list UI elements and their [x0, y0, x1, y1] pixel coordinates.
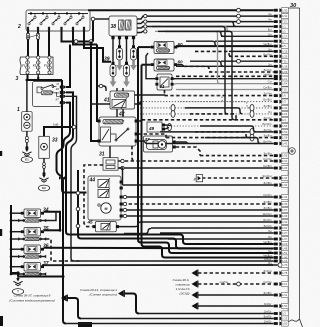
svg-text:42: 42	[118, 112, 125, 118]
fuse under box x=28	[27, 31, 30, 56]
svg-text:F3: F3	[44, 64, 48, 68]
svg-text:Зл: Зл	[268, 235, 272, 239]
svg-text:T13: T13	[282, 20, 287, 24]
wire row y=66.3 to connector pin 1/18	[176, 62, 288, 69]
wire 33 bottom	[43, 158, 45, 172]
svg-text:Зл/Gr: Зл/Gr	[264, 310, 272, 314]
wire cascade 101-107	[180, 102, 250, 108]
wire 41 left	[91, 103, 110, 105]
page link text speed	[80, 288, 117, 297]
wire cascade 95-101	[170, 96, 225, 102]
wire row y=119.8 to connector pin 1/4	[142, 116, 288, 123]
svg-text:Чн/Кр: Чн/Кр	[264, 72, 272, 76]
earth point E1	[21, 157, 32, 163]
wire 38 right pin 3	[137, 25, 147, 28]
wire bus box3 down	[62, 80, 87, 193]
svg-text:Зл/Gr: Зл/Gr	[264, 302, 272, 306]
svg-text:1/76: 1/76	[282, 263, 288, 267]
wire vertical x97 down	[97, 45, 99, 122]
wire 41 out2	[135, 102, 141, 104]
svg-text:1/56: 1/56	[282, 154, 288, 158]
label 33	[52, 138, 58, 144]
svg-text:Си/Чн: Си/Чн	[263, 280, 272, 284]
svg-text:Е1: Е1	[25, 158, 29, 162]
svg-text:1/4: 1/4	[282, 118, 286, 122]
wire row y=131.9 to connector pin 1/52	[160, 128, 288, 135]
svg-text:1/30: 1/30	[282, 8, 288, 12]
svg-text:61: 61	[160, 84, 166, 89]
wire row y=78.7 to connector pin 1/21	[176, 76, 288, 81]
wire row y=253.0 to connector pin 1/51	[172, 249, 288, 256]
svg-text:Бл/Чн: Бл/Чн	[263, 52, 272, 56]
svg-text:T15: T15	[282, 88, 287, 92]
svg-text:1/7: 1/7	[282, 39, 286, 43]
svg-text:Жл/Зл: Жл/Зл	[263, 212, 272, 216]
junction circle a	[74, 40, 78, 44]
svg-text:Бл/Чн: Бл/Чн	[263, 140, 272, 144]
wire bus stub 36	[10, 248, 24, 258]
svg-text:Чн: Чн	[268, 249, 272, 253]
connector strip screw	[289, 148, 296, 155]
wire row y=168.0 to connector pin 1/26	[119, 164, 288, 171]
wire 61 right2	[174, 83, 176, 86]
wire row y=244.0 to connector pin 1/23	[186, 240, 288, 247]
injector group 39	[110, 45, 137, 87]
label 39	[104, 57, 110, 63]
wire 38 bottom pin 4	[132, 36, 135, 45]
wire row y=51.4 to connector pin 1/15	[229, 47, 288, 54]
wire 42 out3	[138, 141, 146, 144]
svg-text:Зл/Чн: Зл/Чн	[263, 128, 271, 132]
svg-text:М: М	[105, 207, 108, 211]
svg-text:1/24: 1/24	[282, 112, 288, 116]
wire row y=257.5 to connector pin 1/46	[165, 254, 288, 261]
wire row y=155.6 to connector pin 1/56	[200, 152, 288, 159]
svg-text:1/45: 1/45	[282, 214, 288, 218]
svg-text:1/32: 1/32	[282, 183, 288, 187]
switch box 61	[155, 74, 173, 90]
wire vertical x93	[92, 21, 94, 42]
wire x78 circles run	[76, 170, 179, 249]
svg-text:3: 3	[16, 76, 19, 82]
wire 33 top	[44, 123, 77, 137]
page link arrow kondicioner	[61, 295, 67, 302]
wire S to row 228	[124, 229, 151, 234]
svg-text:87: 87	[56, 97, 60, 101]
wire row y=56.3 to connector pin 1/25	[229, 52, 288, 59]
wire fuse3 down	[48, 31, 50, 56]
wire 34 out	[44, 212, 60, 231]
page link text ESUD	[173, 278, 190, 296]
svg-text:Зл: Зл	[268, 32, 272, 36]
wire row y=31.4 to connector pin 1/2	[155, 27, 288, 34]
wire injector down b	[122, 88, 124, 117]
socket symbol 8	[194, 175, 203, 182]
wire 47 out2	[176, 147, 200, 156]
svg-text:Зл/Бл: Зл/Бл	[263, 206, 271, 210]
wire 61 left	[146, 53, 155, 79]
wire 45 right to row 222	[119, 222, 141, 227]
svg-text:Зл/Вл: Зл/Вл	[263, 152, 271, 156]
svg-text:1/51: 1/51	[282, 251, 288, 255]
fusible link box 3	[20, 56, 53, 75]
svg-text:Схема 36 А,: Схема 36 А,	[173, 278, 190, 282]
wire relay bus left	[10, 205, 12, 273]
wire row y=233.0 to connector pin 1/27	[160, 229, 288, 236]
wire cascade 113-119	[190, 114, 239, 120]
relay box 37	[18, 263, 46, 276]
wire row y=89.5 to connector pin T15	[176, 86, 288, 93]
svg-text:Бл/Gr: Бл/Gr	[264, 315, 272, 319]
ground 33	[39, 172, 48, 182]
svg-text:60: 60	[178, 60, 184, 65]
svg-text:1/23: 1/23	[282, 242, 288, 246]
wire row y=61.2 to connector pin T15	[221, 59, 288, 64]
label 1	[17, 107, 20, 113]
svg-text:1/52: 1/52	[282, 130, 288, 134]
svg-text:30: 30	[290, 3, 297, 9]
svg-text:1/5: 1/5	[282, 44, 286, 48]
svg-text:F2: F2	[33, 64, 37, 68]
wire 35 out	[44, 229, 61, 232]
wire cascade 126-131	[200, 126, 256, 132]
svg-text:1/18: 1/18	[282, 64, 288, 68]
junction to box41	[97, 84, 106, 91]
svg-text:39: 39	[104, 57, 110, 63]
wire 38 bottom pin 1	[111, 36, 114, 62]
wire cascade 31-119	[158, 31, 235, 119]
svg-text:Зл/Чн: Зл/Чн	[263, 116, 271, 120]
svg-text:F1: F1	[22, 64, 26, 68]
page link arrow ESUD 3	[192, 292, 198, 299]
wire battery up	[26, 79, 29, 112]
fan motor box 60 (2)	[151, 59, 177, 71]
svg-text:Си/Зл: Си/Зл	[263, 193, 271, 197]
svg-text:38: 38	[111, 24, 117, 30]
svg-text:(Сигнал скорости): (Сигнал скорости)	[89, 293, 117, 297]
svg-text:1/37: 1/37	[282, 237, 288, 241]
wire row y=185.0 to connector pin 1/32	[123, 181, 289, 188]
wire 42 bottom dashed to row161	[132, 146, 135, 161]
wire 38 right pin 4	[137, 30, 147, 33]
wire row y=137.6 to connector pin 1/28	[166, 134, 288, 141]
wire 31 right1	[118, 159, 124, 162]
wire cascade 21-26	[160, 22, 236, 27]
svg-text:Зл/Чн: Зл/Чн	[263, 92, 271, 96]
relay box 34	[18, 209, 46, 222]
wire row y=228.0 to connector pin 1/60	[151, 224, 288, 231]
wire row y=284.0 to connector pin 1/21	[198, 280, 288, 287]
page link text kondicioner	[9, 294, 54, 303]
wire row y=295.0 to connector pin 1/31	[198, 291, 288, 298]
wire 60a right	[177, 45, 179, 48]
page link arrow ESUD 2	[192, 281, 198, 288]
wire row y=143.5 to connector pin 1/43	[146, 140, 288, 147]
wire row y=318.5 to connector pin 1/13	[81, 315, 288, 322]
relay box 36	[18, 245, 46, 258]
battery box 1	[22, 112, 32, 132]
wire 38 left pin	[91, 17, 109, 21]
wire row y=261.0 to connector pin 1/16	[74, 257, 288, 264]
relay box 35	[18, 228, 46, 241]
svg-text:страница: страница	[175, 283, 189, 287]
svg-text:1/53: 1/53	[282, 124, 288, 128]
svg-text:47: 47	[144, 137, 151, 142]
wire sw pin3 down	[66, 96, 77, 261]
svg-text:45: 45	[87, 220, 94, 225]
wire row y=21.6 to connector pin T13	[145, 18, 288, 25]
wire row y=83.6 to connector pin 1/54	[176, 80, 288, 87]
wire cascade grey 31-83	[170, 31, 220, 83]
connector strip label 30	[290, 3, 297, 9]
label 60 (1)	[178, 42, 184, 47]
svg-text:T15: T15	[282, 59, 287, 63]
wire 60a left	[138, 46, 151, 48]
svg-text:Бл/Кр: Бл/Кр	[264, 224, 272, 228]
svg-text:Зл/Вл: Зл/Вл	[263, 104, 271, 108]
svg-text:Бл: Бл	[268, 27, 272, 31]
svg-text:Чн: Чн	[268, 229, 272, 233]
wire 61 bottom	[164, 90, 166, 96]
page link arrow ESUD 4	[192, 303, 198, 310]
wire cascade 51-56	[195, 51, 232, 56]
wire row y=222.0 to connector pin 1/42	[141, 218, 288, 225]
wire row y=178.0 to connector pin 1/43	[202, 174, 288, 181]
svg-text:1/26: 1/26	[282, 166, 288, 170]
wire row y=16.1 to connector pin 1/31	[145, 12, 288, 19]
earth point E2	[38, 185, 49, 191]
wire cascade 66-72	[184, 66, 212, 72]
svg-text:Зл: Зл	[268, 47, 272, 51]
wire bus stub 34	[10, 212, 24, 222]
label 45	[87, 220, 94, 225]
wire row y=113.9 to connector pin 1/24	[140, 110, 288, 117]
svg-text:Зл/Бл: Зл/Бл	[263, 134, 271, 138]
fuse 33	[43, 163, 46, 169]
wire sw pin2 down	[66, 92, 186, 244]
wire sw pin1 up	[66, 45, 70, 88]
svg-text:1/31: 1/31	[282, 293, 288, 297]
wire vertical x91 down	[91, 42, 99, 142]
fuse-relay box 2	[26, 10, 90, 31]
wire battery down	[26, 131, 28, 146]
wire kondicioner	[68, 298, 81, 319]
label 60 (2)	[178, 60, 184, 65]
svg-text:1/3: 1/3	[282, 312, 286, 316]
wire row y=210.0 to connector pin 1/57	[123, 206, 288, 213]
svg-text:1/3: 1/3	[282, 100, 286, 104]
svg-text:(Система кондиционирования): (Система кондиционирования)	[9, 299, 54, 303]
svg-text:1,N,Aa,Cb: 1,N,Aa,Cb	[176, 287, 190, 291]
wire row y=248.5 to connector pin 1/48	[179, 246, 288, 251]
svg-text:Е2: Е2	[42, 186, 46, 190]
wire row y=323.5 to connector pin 1/50	[66, 320, 288, 327]
wire 34 conn right	[46, 212, 56, 221]
svg-text:Бл/Жл: Бл/Жл	[262, 122, 271, 126]
svg-text:1/2: 1/2	[282, 30, 286, 34]
svg-text:1/13: 1/13	[282, 317, 288, 321]
label 37	[43, 261, 49, 267]
svg-text:1/42: 1/42	[282, 220, 288, 224]
svg-text:Чн/Бл: Чн/Бл	[263, 240, 271, 244]
fan motor box 60 (1)	[151, 42, 177, 54]
svg-text:1/43: 1/43	[282, 142, 288, 146]
wire vertical x141 run	[142, 65, 166, 258]
wire row y=126.0 to connector pin 1/53	[171, 122, 288, 129]
wire 42 to 31	[109, 146, 111, 158]
svg-text:1/36: 1/36	[282, 202, 288, 206]
svg-text:КиВ: КиВ	[53, 123, 58, 127]
pin on bus x62	[59, 176, 65, 180]
svg-text:44: 44	[89, 178, 96, 184]
svg-text:Бл/Вл: Бл/Вл	[263, 98, 272, 102]
fuse under box x=38	[27, 31, 40, 56]
ignition relay box	[33, 82, 67, 107]
wire vertical x138 run	[138, 47, 172, 253]
svg-text:1/1: 1/1	[282, 25, 286, 29]
wire 42 out2	[138, 134, 166, 138]
wire 38 bottom pin 3	[125, 36, 128, 62]
svg-text:1/21: 1/21	[282, 282, 288, 286]
svg-text:Зл/Gr: Зл/Gr	[264, 320, 272, 324]
svg-text:1/78: 1/78	[282, 271, 288, 275]
svg-text:Зл: Зл	[268, 62, 272, 66]
battery fuse symbol	[25, 137, 28, 143]
label 34	[43, 208, 49, 214]
wire fuse6 elbow	[84, 31, 111, 62]
svg-text:86: 86	[56, 91, 60, 95]
svg-text:41: 41	[103, 98, 110, 104]
wire row y=216.0 to connector pin 1/45	[123, 212, 288, 219]
svg-text:Зл/Вл: Зл/Вл	[263, 291, 271, 295]
ground relay bus	[11, 271, 23, 285]
svg-text:1/57: 1/57	[282, 208, 288, 212]
svg-text:1: 1	[17, 107, 20, 113]
connector strip 30 outline	[282, 8, 303, 327]
svg-text:Схема 28-14, страница 1: Схема 28-14, страница 1	[80, 288, 117, 292]
svg-text:1/31: 1/31	[282, 14, 288, 18]
wire cascade 41-46	[186, 41, 218, 46]
label 3	[16, 76, 19, 82]
wire 61 right1	[174, 78, 176, 80]
wire row y=101.6 to connector pin 1/3	[140, 98, 288, 105]
wire 31 left	[84, 165, 103, 227]
wire 38 right pin 2	[137, 20, 147, 24]
svg-text:Жл/Си: Жл/Си	[262, 174, 272, 178]
label 31	[99, 152, 105, 158]
svg-text:Зл/Вл: Зл/Вл	[263, 181, 271, 185]
label 47	[144, 137, 151, 142]
relay box 42	[97, 117, 137, 146]
wire 37 out	[44, 264, 273, 266]
ground battery	[22, 146, 31, 156]
page link arrow ESUD 1	[192, 270, 198, 277]
wire row y=107.9 to connector pin 1/40	[140, 104, 288, 111]
svg-text:1/6: 1/6	[282, 94, 286, 98]
svg-text:Схема 38-37, страница 8: Схема 38-37, страница 8	[14, 294, 51, 298]
label 36	[43, 244, 49, 250]
wire row y=161.0 to connector pin 1/41	[119, 157, 288, 164]
wire cascade 31-36	[165, 31, 224, 36]
label 41	[103, 98, 110, 104]
wire row y=313.5 to connector pin 1/3	[139, 310, 288, 317]
wire 31 right2	[118, 166, 124, 169]
junction circle b	[89, 40, 93, 44]
svg-text:1/15: 1/15	[282, 50, 288, 54]
svg-text:Чн: Чн	[268, 18, 272, 22]
svg-text:2: 2	[17, 24, 21, 30]
svg-text:1/41: 1/41	[282, 159, 288, 163]
label 2	[17, 24, 21, 30]
svg-text:Зл: Зл	[268, 110, 272, 114]
wire 38 bottom pin 2	[118, 36, 121, 45]
wire cascade 26-113	[152, 27, 228, 114]
wire row y=26.5 to connector pin 1/1	[145, 24, 288, 29]
svg-text:49: 49	[148, 126, 155, 131]
pump box 47	[144, 136, 176, 152]
wire 60b left	[142, 64, 151, 66]
wire 38 right pin 1	[137, 14, 147, 19]
wire box3 f2 down	[37, 75, 39, 80]
wire speed	[125, 294, 139, 314]
sensor box 41	[110, 91, 135, 109]
wire row y=72.0 to connector pin 1/29	[209, 68, 288, 75]
svg-text:Чн: Чн	[268, 12, 272, 16]
wire row y=36.3 to connector pin 1/17	[221, 32, 288, 39]
wire 47 out1	[176, 142, 188, 144]
wire row y=239.0 to connector pin 1/37	[168, 235, 288, 242]
svg-text:1/40: 1/40	[282, 106, 288, 110]
scan artifact marks left edge	[0, 151, 92, 327]
control unit box 38	[109, 16, 137, 36]
wire 42 out1	[138, 120, 142, 121]
wire 36 out	[44, 247, 273, 250]
wire row y=95.6 to connector pin 1/6	[165, 92, 289, 99]
wire row y=273.0 to connector pin 1/78	[198, 269, 288, 276]
label 35	[43, 226, 49, 232]
svg-text:31: 31	[99, 152, 105, 158]
wire row y=46.1 to connector pin 1/5	[176, 42, 288, 49]
svg-text:1/21: 1/21	[282, 77, 288, 81]
wire cascade 131-137	[195, 132, 249, 138]
svg-text:33: 33	[52, 138, 58, 144]
sensor box 33	[39, 136, 50, 158]
wire row y=76.3 to connector pin 1/20	[176, 72, 288, 79]
wire bus stub 35	[10, 230, 24, 240]
heater unit box 44	[88, 176, 127, 220]
svg-text:1/48: 1/48	[282, 247, 288, 251]
svg-text:Си/Вл: Си/Вл	[263, 164, 272, 168]
thermistor box 45	[93, 222, 120, 232]
wire cascade 61-66	[190, 61, 224, 66]
wire injector down a	[116, 88, 118, 117]
wire box3 out bottom	[28, 75, 63, 81]
svg-text:Бл/Зл: Бл/Зл	[263, 218, 271, 222]
wire 60b right	[177, 65, 184, 67]
wire row y=10.2 to connector pin 1/30	[88, 8, 288, 13]
wire row y=204.0 to connector pin 1/36	[123, 200, 288, 207]
wire ground bus right	[18, 275, 65, 278]
label 61	[160, 84, 166, 89]
svg-text:1/17: 1/17	[282, 34, 288, 38]
svg-text:Чн/Бл: Чн/Бл	[263, 42, 271, 46]
svg-text:Си/Чн: Си/Чн	[220, 280, 229, 284]
label 42	[118, 112, 125, 118]
wire row y=197.0 to connector pin 1/44	[123, 193, 288, 200]
wire sw pin4 down	[57, 103, 71, 324]
svg-text:1/27: 1/27	[282, 231, 288, 235]
resistor box 31	[103, 158, 118, 171]
